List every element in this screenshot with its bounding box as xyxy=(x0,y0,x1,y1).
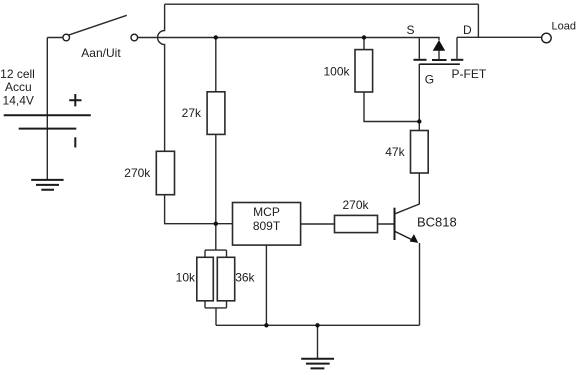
ground (bottom center) xyxy=(301,359,334,369)
wire ground drop (bottom) xyxy=(317,325,319,358)
svg-text:809T: 809T xyxy=(253,219,281,233)
wire 270k bottom to junction xyxy=(165,195,216,224)
svg-text:270k: 270k xyxy=(342,198,369,212)
svg-text:10k: 10k xyxy=(176,271,196,285)
resistor 27k xyxy=(207,92,225,135)
wire MCP right lead xyxy=(301,223,335,225)
wire 27k drop from main rail xyxy=(215,38,217,92)
switch terminal circle right xyxy=(131,34,138,41)
svg-text:MCP: MCP xyxy=(253,205,280,219)
svg-text:27k: 27k xyxy=(182,106,202,120)
wire MCP bottom pin xyxy=(265,245,267,325)
node: ground tap on bottom rail xyxy=(315,323,319,327)
transistor Q1 emitter diagonal xyxy=(395,231,413,240)
node: 270k / 27k / MCP junction xyxy=(214,222,218,226)
battery minus terminal mark xyxy=(74,137,76,147)
wire FET drain drop xyxy=(456,37,458,59)
wire resistor pair bottom bar and drop xyxy=(205,301,227,326)
node: gate / 100k / 47k junction xyxy=(417,119,421,123)
wire top rail right vertical xyxy=(477,4,479,37)
battery plus sign xyxy=(69,94,81,106)
resistor 270k (left) xyxy=(156,151,174,194)
svg-text:Accu: Accu xyxy=(5,80,32,94)
FET drain contact bar xyxy=(451,59,463,61)
svg-text:Aan/Uit: Aan/Uit xyxy=(81,46,121,60)
resistor 100k xyxy=(355,50,373,92)
svg-text:14,4V: 14,4V xyxy=(3,93,34,107)
svg-text:47k: 47k xyxy=(385,145,405,159)
battery B1 bottom plate xyxy=(19,128,77,130)
FET body contact bar xyxy=(432,59,447,61)
svg-text:D: D xyxy=(463,23,472,37)
svg-text:BC818: BC818 xyxy=(417,215,457,230)
body diode of P-FET (filled triangle) xyxy=(433,40,446,51)
node: 27k tap on main rail xyxy=(214,35,218,39)
IC U1 MCP809T box xyxy=(233,203,301,246)
svg-text:12 cell: 12 cell xyxy=(0,67,35,81)
wire gate vertical down to 47k xyxy=(418,64,420,131)
resistor 36k xyxy=(217,257,234,301)
load terminal circle xyxy=(542,33,552,43)
wire base lead to transistor xyxy=(378,223,394,225)
svg-text:S: S xyxy=(407,23,415,37)
wire battery stub to switch xyxy=(47,37,63,39)
resistor 10k xyxy=(197,257,214,301)
wire 47k bottom to collector xyxy=(395,173,419,214)
FET gate line xyxy=(419,63,460,65)
wire S to body diode top xyxy=(419,38,439,41)
FET source contact bar xyxy=(414,59,427,61)
wire divider drop and bars: resistor pair top bar xyxy=(205,250,227,257)
battery B1 top plate xyxy=(4,114,91,116)
svg-text:36k: 36k xyxy=(235,271,255,285)
wire FET source drop xyxy=(418,38,420,59)
wire 100k drop from main rail xyxy=(363,38,365,50)
wire D side horizontal to load xyxy=(457,36,542,38)
wire 27k bottom through junction to divider xyxy=(215,134,217,250)
ground (battery) xyxy=(31,180,63,190)
svg-text:Load: Load xyxy=(552,20,576,32)
wire MCP left lead xyxy=(216,223,233,225)
wire top rail xyxy=(165,3,479,5)
resistor 47k xyxy=(411,131,429,174)
node: MCP pin on bottom rail xyxy=(264,323,268,327)
wire left vertical from top rail with hop over main wire xyxy=(158,4,165,151)
wire body diode cathode to body bar xyxy=(438,51,440,60)
wire battery vertical (continuous through plates to ground) xyxy=(46,38,48,180)
wire emitter vertical to bottom rail xyxy=(419,243,421,325)
resistor 270k (horizontal, base) xyxy=(335,215,378,232)
transistor Q1 base bar xyxy=(394,208,396,240)
svg-text:G: G xyxy=(425,72,434,86)
node: 100k tap on main rail xyxy=(362,35,366,39)
svg-text:100k: 100k xyxy=(323,64,350,78)
switch blade xyxy=(69,15,127,35)
wire bottom rail xyxy=(216,324,420,326)
wire main horizontal rail from switch to FET source xyxy=(138,37,420,39)
switch terminal circle left xyxy=(63,34,70,41)
svg-text:270k: 270k xyxy=(124,166,151,180)
svg-text:P-FET: P-FET xyxy=(452,67,487,81)
wire 100k bottom to gate node xyxy=(364,92,419,122)
transistor Q1 emitter arrowhead xyxy=(410,234,419,243)
